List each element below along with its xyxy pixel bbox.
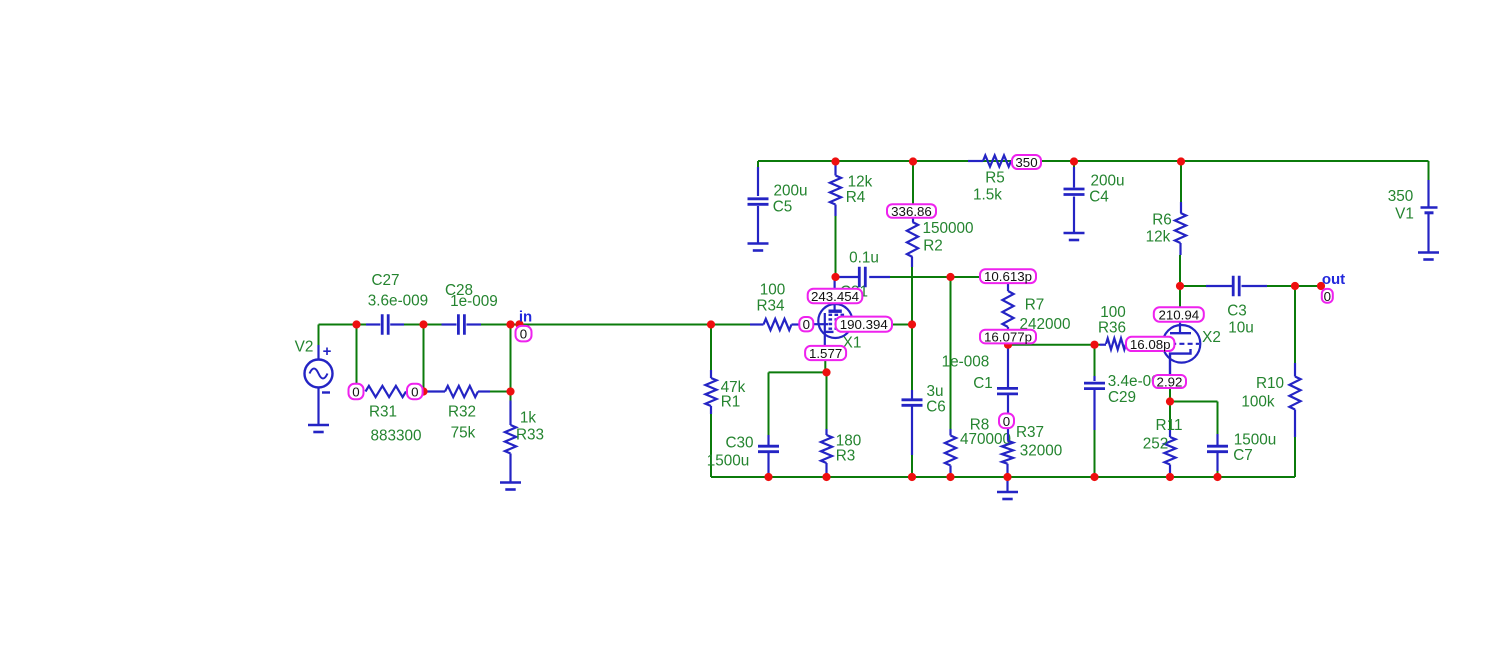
wire: C27 shunt vertical [356,325,358,385]
svg-text:0: 0 [411,385,418,400]
svg-text:2.92: 2.92 [1157,375,1183,390]
annotation 210.94 [1154,307,1204,322]
annotation 0 [349,384,364,400]
annotation 0 [516,326,532,342]
wire: C28 shunt vertical [423,325,425,392]
junction [764,473,772,481]
capacitor C30 [707,435,779,470]
svg-text:1.577: 1.577 [809,346,842,361]
ground (R33) [500,483,521,490]
svg-text:V1: V1 [1395,206,1414,223]
svg-text:R32: R32 [448,404,476,421]
resistor R36 [1098,304,1150,350]
svg-text:R6: R6 [1152,212,1172,229]
ground (main rail) [997,477,1018,499]
svg-text:0: 0 [803,317,810,332]
junction [1090,341,1098,349]
junction [946,473,954,481]
svg-text:V2: V2 [295,339,314,356]
annotation 190.394 [836,317,892,333]
svg-text:1e-008: 1e-008 [942,354,990,371]
junction [1213,473,1221,481]
resistor R6 [1146,202,1186,255]
capacitor C29 [1084,373,1168,430]
wire: R32 to in-branch [490,391,511,393]
junction [1317,282,1325,290]
junction [1070,157,1078,165]
junction [1176,282,1184,290]
junction [1166,473,1174,481]
resistor R33 [505,401,544,483]
resistor R3 [821,429,861,465]
svg-text:1k: 1k [520,410,537,427]
annotation 0 [999,414,1014,429]
resistor R31 [366,386,422,445]
resistor R10 [1241,363,1300,437]
svg-text:R4: R4 [846,189,866,206]
resistor R2 [907,205,974,267]
wire: R3 bottom lead [825,463,827,477]
resistor R11 [1143,417,1183,465]
annotation 2.92 [1153,375,1186,390]
svg-text:0: 0 [1003,414,1010,429]
svg-text:0.1u: 0.1u [849,250,879,267]
annotation 336.86 [887,204,936,219]
wire: R8 branch [950,277,952,477]
svg-text:1e-009: 1e-009 [450,293,498,310]
junction [506,320,514,328]
capacitor C31 (0.1u coupling) [838,250,890,301]
svg-text:200u: 200u [773,183,807,200]
annotation 16.08p [1126,337,1174,352]
junction [822,368,830,376]
capacitor C5 [748,183,808,216]
svg-text:+: + [323,343,332,360]
wire: R1 branch [710,325,712,478]
svg-text:10.613p: 10.613p [984,269,1032,284]
annotation 0 [799,317,813,332]
resistor R7 [1002,283,1070,333]
svg-text:R31: R31 [369,404,397,421]
wire: top supply rail [758,161,1429,180]
svg-text:C3: C3 [1227,303,1247,320]
ground (V2) [308,425,329,432]
svg-text:R7: R7 [1025,297,1045,314]
svg-text:100: 100 [760,282,786,299]
capacitor C4 [1064,173,1125,206]
wire: V2 branch [319,325,357,360]
wire: in node vertical to R33 [510,325,512,401]
svg-text:C1: C1 [973,375,993,392]
junction [908,473,916,481]
svg-text:0: 0 [520,327,527,342]
triode X2 [1163,307,1221,388]
svg-text:252: 252 [1143,436,1169,453]
wire: R6 branch to X2 plate [1180,161,1181,307]
junction [419,387,427,395]
junction [506,387,514,395]
wire: R7/C1 node horizontal [1008,344,1100,346]
svg-text:C7: C7 [1233,447,1253,464]
svg-text:3u: 3u [926,383,943,400]
svg-text:R36: R36 [1098,320,1126,337]
wire: R2 branch [912,161,913,390]
annotation 243.454 [808,289,863,304]
junction [831,273,839,281]
wire: C7 bottom lead [1216,452,1218,477]
ground (V1) [1418,253,1439,260]
resistor R5 [968,155,1013,203]
wire: C5 branch [757,161,759,243]
annotation 0 [407,384,423,400]
svg-text:12k: 12k [848,174,873,191]
svg-text:R33: R33 [516,427,544,444]
junction [515,320,523,328]
svg-text:C4: C4 [1089,189,1109,206]
junction [707,320,715,328]
capacitor C1 [942,345,1018,414]
svg-text:1500u: 1500u [707,453,750,470]
capacitor C3 [1206,276,1267,337]
svg-text:C5: C5 [773,199,793,216]
resistor R8 [945,417,1011,478]
wire: X2 cathode net [1170,388,1218,434]
capacitor C6 [902,383,946,477]
svg-text:10u: 10u [1228,320,1254,337]
svg-text:0: 0 [352,385,359,400]
capacitor C7 [1207,432,1276,465]
resistor R1 [705,370,745,414]
junction [1004,341,1012,349]
wire: V1 branch [1427,180,1429,252]
node out [1322,271,1345,288]
annotation 16.077p [980,330,1036,345]
capacitor C27 [366,272,428,335]
svg-text:350: 350 [1015,155,1037,170]
wire: C30 bottom lead [767,452,769,477]
junction [1003,473,1011,481]
resistor R32 [424,386,491,442]
wire: coupling node horizontal [890,276,980,278]
svg-text:200u: 200u [1090,173,1124,190]
svg-text:16.08p: 16.08p [1130,337,1171,352]
junction [1291,282,1299,290]
svg-text:100: 100 [1100,304,1126,321]
ground (C4) [1064,233,1085,240]
svg-text:C27: C27 [371,272,399,289]
svg-text:12k: 12k [1146,229,1171,246]
node in [519,309,532,326]
svg-text:R10: R10 [1256,375,1284,392]
resistor R34 [750,282,800,331]
wire: input line (in net) [357,324,751,326]
junction [908,320,916,328]
annotation 350 [1012,155,1041,170]
svg-text:0: 0 [1324,289,1331,304]
svg-text:C30: C30 [725,435,753,452]
svg-text:C6: C6 [926,399,946,416]
svg-text:16.077p: 16.077p [984,330,1032,345]
wire: X1 cathode net [769,360,827,435]
svg-text:R11: R11 [1156,417,1183,434]
wire: R11 bottom lead [1169,465,1171,478]
junction [831,157,839,165]
svg-text:883300: 883300 [370,428,421,445]
triode X1 [813,277,861,360]
resistor R4 [830,164,873,216]
svg-text:75k: 75k [451,425,476,442]
junction [419,320,427,328]
svg-text:R3: R3 [836,448,856,465]
junction [909,157,917,165]
junction [1090,473,1098,481]
svg-text:R1: R1 [721,394,741,411]
voltage source V1 [1388,188,1438,223]
voltage source V2 [295,339,333,425]
svg-text:R34: R34 [756,298,785,315]
wire: C29 branch [1094,345,1096,477]
annotation 1.577 [805,346,846,361]
svg-text:R37: R37 [1016,424,1044,441]
svg-text:243.454: 243.454 [811,289,859,304]
svg-text:350: 350 [1388,188,1414,205]
ground (C5) [748,244,769,251]
svg-text:336.86: 336.86 [891,204,932,219]
resistor R37 [1002,424,1062,477]
wire: R10 branch [1294,286,1296,477]
svg-text:1.5k: 1.5k [973,187,1002,204]
annotation 10.613p [980,269,1036,284]
svg-text:190.394: 190.394 [840,317,888,332]
svg-text:1500u: 1500u [1234,432,1277,449]
junction [822,473,830,481]
wire: C4 branch [1073,161,1075,233]
svg-text:100k: 100k [1241,394,1275,411]
svg-text:out: out [1322,271,1345,288]
junction [1166,397,1174,405]
svg-text:210.94: 210.94 [1158,308,1199,323]
svg-text:R2: R2 [923,238,943,255]
annotation 0 [1322,289,1333,304]
svg-text:C29: C29 [1108,389,1136,406]
wire: X2 plate node to out [1180,285,1319,287]
junction [1177,157,1185,165]
wire: X1 plate to R2 node [892,324,912,326]
svg-text:150000: 150000 [922,220,973,237]
junction [352,320,360,328]
junction [946,273,954,281]
svg-text:X2: X2 [1202,329,1221,346]
svg-text:R5: R5 [985,170,1005,187]
wire: bottom ground rail [711,476,1295,478]
svg-text:32000: 32000 [1020,443,1063,460]
wire: R4 branch to X1 plate [835,161,837,277]
svg-text:in: in [519,309,532,326]
capacitor C28 [442,282,498,335]
svg-text:3.6e-009: 3.6e-009 [368,293,428,310]
